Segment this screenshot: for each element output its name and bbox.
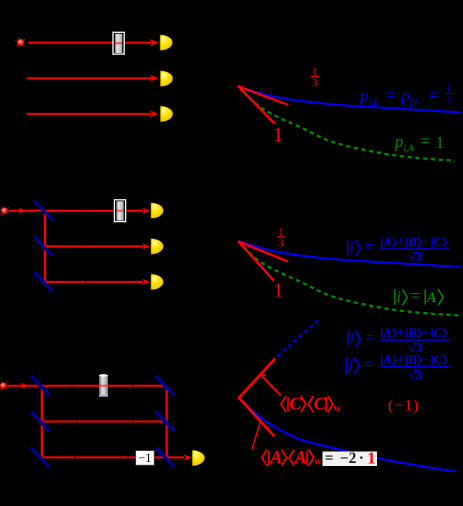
svg-text:+: +: [422, 234, 430, 249]
svg-text:1: 1: [273, 124, 283, 146]
beam c-mid: [42, 421, 167, 423]
svg-text:A: A: [426, 290, 437, 306]
plot-b red tangent slope 1: [239, 242, 273, 280]
arrow b3: [142, 279, 150, 285]
dash marks c-bot: [74, 456, 76, 458]
svg-text:f,b: f,b: [410, 97, 420, 107]
source beam (b): [9, 210, 46, 212]
svg-text:C: C: [434, 235, 443, 249]
source arrow (c): [21, 383, 29, 389]
plot-b blue curve: [239, 241, 462, 267]
plot-a green dashed curve p_iA: [239, 86, 456, 160]
svg-text:A: A: [382, 353, 391, 367]
svg-text:w: w: [334, 403, 342, 414]
svg-text:B: B: [408, 235, 417, 249]
arrow a1: [150, 39, 159, 46]
plot-c thin red leader to A label: [252, 422, 260, 449]
arrow a3: [150, 110, 159, 117]
beamsplitter c-R2: [156, 412, 175, 432]
svg-text:p: p: [400, 86, 409, 105]
beamsplitter c-L2: [31, 412, 50, 432]
svg-text:=: =: [364, 354, 374, 374]
beam c-bot: [42, 456, 184, 458]
detector D3 (a): [160, 106, 173, 122]
svg-text:3: 3: [278, 237, 283, 249]
svg-text:+: +: [397, 234, 405, 249]
svg-text:i: i: [350, 331, 354, 348]
beam a2: [27, 77, 152, 79]
beam b1: [45, 210, 143, 212]
plot-c blue decaying curve: [239, 398, 455, 472]
right vertical (c): [166, 386, 168, 458]
plot-b red tangent slope 1/3: [239, 242, 288, 261]
svg-text:A: A: [269, 447, 282, 467]
plot-b green dashed curve: [239, 241, 460, 316]
beamsplitter c-L1: [31, 376, 50, 396]
svg-text:1: 1: [367, 448, 375, 467]
svg-text:C: C: [314, 393, 327, 413]
photon source dot (b): [0, 209, 2, 210]
plot-c red label <|A><A|>_w: [262, 450, 267, 466]
svg-text:(−1): (−1): [388, 398, 419, 415]
beamsplitter c-L3: [31, 448, 50, 468]
plot-c blue label |i> = (|A>+|B>+|C>)/sqrt3: [347, 331, 349, 347]
svg-text:=: =: [365, 236, 375, 256]
plot-b green label |i> = |A>: [394, 289, 396, 305]
svg-text:1: 1: [273, 280, 283, 302]
beam b2: [45, 245, 143, 247]
svg-text:1: 1: [436, 133, 444, 152]
phase shifter cylinder (c): [99, 375, 108, 396]
svg-text:i: i: [397, 289, 401, 306]
svg-text:−: −: [422, 352, 430, 367]
svg-text:+: +: [397, 352, 405, 367]
beamsplitter BS2 (b): [34, 237, 53, 257]
detector D2 (b): [151, 239, 164, 255]
dash mark b3: [85, 281, 87, 283]
svg-text:·: ·: [359, 450, 364, 467]
beamsplitter BS3 (b): [34, 272, 53, 292]
source beam (c): [7, 385, 42, 387]
plot-c red upper arm: [239, 359, 275, 397]
svg-text:p: p: [359, 86, 368, 105]
minus-one box (c): [136, 451, 155, 466]
detector D1 (a): [160, 35, 173, 51]
svg-text:=: =: [410, 286, 420, 306]
svg-text:√3: √3: [409, 249, 423, 264]
filter F (b): [114, 200, 125, 222]
beamsplitter BS1 (b): [34, 201, 53, 221]
svg-text:A: A: [382, 326, 391, 340]
svg-text:A: A: [382, 235, 391, 249]
svg-text:+: +: [422, 325, 430, 340]
svg-text:=: =: [386, 85, 396, 105]
svg-text:+: +: [397, 325, 405, 340]
arrow a2: [150, 75, 159, 82]
detector D2 (a): [160, 71, 173, 87]
svg-text:√3: √3: [409, 367, 423, 382]
detector D3 (b): [151, 274, 164, 290]
dash marks c-top: [71, 385, 73, 387]
plot-c blue dashed incoming line: [274, 320, 318, 359]
svg-text:3: 3: [312, 77, 317, 89]
plot-b blue label |i> = (|A>+|B>+|C>)/sqrt3: [347, 240, 349, 256]
plot-c blue label |f> = (|A>+|B>-|C>)/sqrt3: [346, 358, 348, 374]
svg-text:−2: −2: [340, 450, 357, 467]
detector D1 (b): [151, 203, 164, 219]
dash marks c-mid: [76, 420, 78, 422]
plot-c highlight box = -2 . 1: [323, 452, 378, 467]
svg-text:i,b: i,b: [369, 97, 379, 107]
plot-c red branch to C label: [261, 374, 266, 376]
arrow b1: [142, 208, 150, 214]
plot-c red label <|C><C|>_w: [281, 396, 286, 412]
detector D (c): [192, 450, 205, 466]
svg-text:1: 1: [278, 226, 283, 238]
svg-text:p: p: [394, 132, 403, 151]
photon source dot (a): [15, 41, 18, 42]
dash mark b1: [85, 210, 87, 212]
svg-text:1: 1: [446, 83, 451, 94]
beam c-top: [42, 385, 167, 387]
svg-text:C: C: [434, 326, 443, 340]
svg-text:w: w: [314, 456, 322, 467]
svg-text:=: =: [365, 327, 375, 347]
source arrow (b): [18, 208, 26, 214]
svg-text:=: =: [420, 131, 430, 151]
svg-text:i: i: [349, 240, 353, 257]
arrow c-bot: [183, 454, 191, 460]
vertical bus (b): [44, 211, 46, 282]
beam b3: [45, 281, 143, 283]
svg-text:3: 3: [446, 95, 451, 106]
plot-c red lower tangent: [239, 398, 274, 436]
svg-text:1: 1: [312, 65, 317, 77]
svg-text:=: =: [429, 85, 439, 105]
photon source dot (c): [0, 384, 1, 385]
left vertical (c): [41, 386, 43, 458]
beamsplitter c-R1: [156, 376, 175, 396]
svg-text:C: C: [434, 353, 443, 367]
svg-text:=: =: [325, 450, 334, 467]
filter F (a): [113, 32, 124, 54]
arrow b2: [142, 243, 150, 249]
beam a3: [27, 113, 152, 115]
beamsplitter c-R3: [156, 448, 175, 468]
svg-text:B: B: [408, 326, 417, 340]
plot-a red tangent slope 1: [239, 86, 275, 123]
plot-a blue curve p_ib: [239, 86, 462, 112]
svg-text:B: B: [408, 353, 417, 367]
dash mark b2: [85, 245, 87, 247]
svg-text:A: A: [294, 447, 307, 467]
beam a1: [28, 42, 151, 44]
plot-a red tangent slope 1/3: [239, 86, 288, 104]
svg-text:i,A: i,A: [404, 143, 415, 153]
svg-text:−1: −1: [138, 451, 151, 465]
